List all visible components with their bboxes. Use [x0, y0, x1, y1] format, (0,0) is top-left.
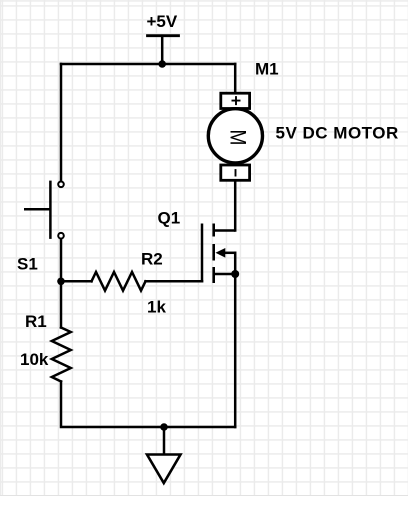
switch S1 bottom terminal circle	[58, 233, 64, 239]
svg-text:M: M	[225, 129, 249, 145]
wire: right rail top (to motor +)	[234, 64, 237, 92]
wire: left rail top (to switch)	[60, 64, 63, 181]
junction dot at MOSFET source	[231, 270, 239, 278]
Q1 drain lead	[215, 229, 235, 232]
motor M1 plus sign	[232, 96, 241, 105]
svg-text:M1: M1	[255, 60, 279, 79]
junction dot at S1/R1/R2 node	[57, 278, 65, 286]
switch S1 actuator bar	[49, 181, 52, 239]
ground symbol	[147, 455, 181, 484]
Q1 body arrow head	[216, 248, 226, 258]
motor M1 body circle	[208, 109, 262, 163]
svg-text:Q1: Q1	[158, 209, 181, 228]
motor M1 minus terminal box	[221, 165, 250, 180]
wire: +5V stem	[161, 36, 164, 64]
transistor Q1 N-MOSFET	[202, 224, 235, 284]
svg-text:+5V: +5V	[147, 12, 178, 31]
motor M1	[208, 93, 262, 180]
motor M1 minus sign (rotated)	[235, 169, 237, 176]
wire: source rail down to bottom	[234, 253, 237, 427]
wire: switch bottom to bottom rail	[60, 239, 63, 328]
switch S1 pushbutton	[24, 181, 64, 239]
junction dot at ground node	[160, 423, 168, 431]
svg-text:R2: R2	[141, 250, 163, 269]
svg-text:1k: 1k	[147, 298, 166, 317]
Q1 channel dash top (drain)	[212, 224, 215, 237]
wire: below R1 to bottom rail corner	[61, 382, 235, 428]
wire: gate wire from junction to R2	[61, 280, 92, 283]
Q1 channel dash middle (body)	[212, 244, 215, 261]
wire: top horizontal rail	[61, 63, 235, 66]
wire: ground stem	[163, 427, 166, 455]
svg-text:R1: R1	[25, 312, 47, 331]
svg-text:5V DC MOTOR: 5V DC MOTOR	[276, 124, 399, 143]
Q1 source lead	[215, 273, 235, 276]
svg-text:S1: S1	[17, 255, 38, 274]
svg-text:10k: 10k	[20, 350, 49, 369]
Q1 gate bar	[201, 224, 204, 283]
wire: R2 to MOSFET gate	[146, 280, 203, 283]
wire: motor - to drain	[234, 181, 237, 231]
power +5V bar	[148, 34, 179, 37]
Q1 body lead	[225, 252, 236, 255]
resistor R1 zigzag	[52, 328, 71, 382]
motor M1 plus terminal box	[221, 93, 250, 108]
junction dot at +5V tap	[158, 60, 166, 68]
switch S1 top terminal circle	[58, 182, 64, 188]
Q1 channel dash bottom (source)	[212, 267, 215, 283]
switch S1 plunger line	[24, 208, 50, 211]
resistor R2 zigzag	[92, 272, 146, 291]
